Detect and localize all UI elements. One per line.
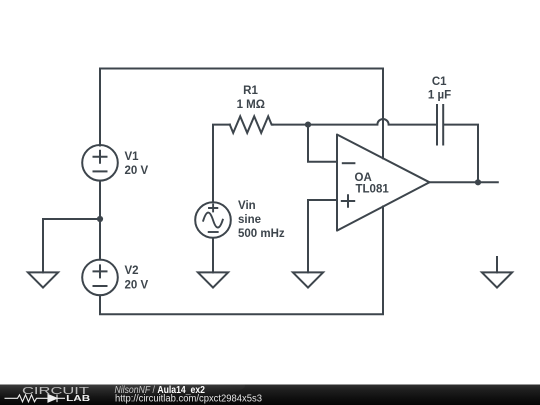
svg-text:1 µF: 1 µF	[428, 90, 451, 102]
ground (Vin)	[198, 272, 228, 287]
wire: stub above right ground	[496, 257, 498, 272]
label C1 1 uF	[428, 76, 451, 102]
svg-text:500 mHz: 500 mHz	[238, 228, 285, 240]
resistor R1	[230, 116, 273, 133]
junction dot: inverting input node	[305, 122, 311, 128]
label R1 1 Mohm	[237, 85, 265, 111]
ground (right, floating)	[482, 272, 512, 287]
svg-text:V2: V2	[125, 265, 139, 277]
voltage source V2	[82, 260, 118, 296]
ground (non-inverting input)	[293, 272, 323, 287]
capacitor C1	[437, 105, 443, 145]
wire: Vin top to R1 left	[213, 125, 230, 203]
junction dot: output node	[475, 179, 481, 185]
svg-text:TL081: TL081	[356, 184, 390, 196]
voltage source Vin (sine)	[195, 202, 231, 238]
svg-text:Vin: Vin	[238, 200, 256, 212]
wire: op-amp plus input to ground	[308, 200, 337, 272]
ground (supply midpoint)	[28, 272, 58, 287]
svg-text:20 V: 20 V	[125, 165, 149, 177]
svg-text:LAB: LAB	[66, 394, 90, 403]
wire: V1 top to positive supply rail to op-amp V+ pin	[100, 69, 383, 159]
label V1 20 V	[125, 151, 149, 177]
label V2 20 V	[125, 265, 149, 291]
wire: inverting node to C1 with hop over V+ wire	[308, 119, 436, 125]
wire: C1 right plate to output node	[444, 125, 478, 183]
wire: inverting node down to op-amp minus input	[308, 125, 337, 162]
wire: R1 right to inverting node	[273, 124, 308, 126]
wire: supply midpoint to left ground	[43, 219, 100, 272]
op-amp U1 (OA TL081)	[337, 135, 430, 231]
svg-text:20 V: 20 V	[125, 279, 149, 291]
wire: Vin bottom to ground	[212, 238, 214, 272]
svg-text:OA: OA	[355, 172, 372, 184]
svg-text:V1: V1	[125, 151, 140, 163]
junction dot: supply midpoint node	[97, 216, 103, 222]
svg-text:C1: C1	[432, 76, 447, 88]
footer bar	[0, 385, 540, 405]
svg-text:sine: sine	[238, 214, 261, 226]
CircuitLab logo	[5, 385, 91, 403]
label OA TL081	[355, 172, 390, 195]
label Vin sine 500 mHz	[238, 200, 285, 240]
svg-text:1 MΩ: 1 MΩ	[237, 99, 265, 111]
wire: V2 bottom negative rail to op-amp V- pin	[100, 207, 383, 315]
wire V1 bottom to V2 top	[99, 181, 101, 260]
wire: op-amp output stub	[430, 181, 498, 183]
svg-text:R1: R1	[243, 85, 258, 97]
svg-text:http://circuitlab.com/cpxct298: http://circuitlab.com/cpxct2984x5s3	[115, 394, 262, 405]
voltage source V1	[82, 145, 118, 181]
